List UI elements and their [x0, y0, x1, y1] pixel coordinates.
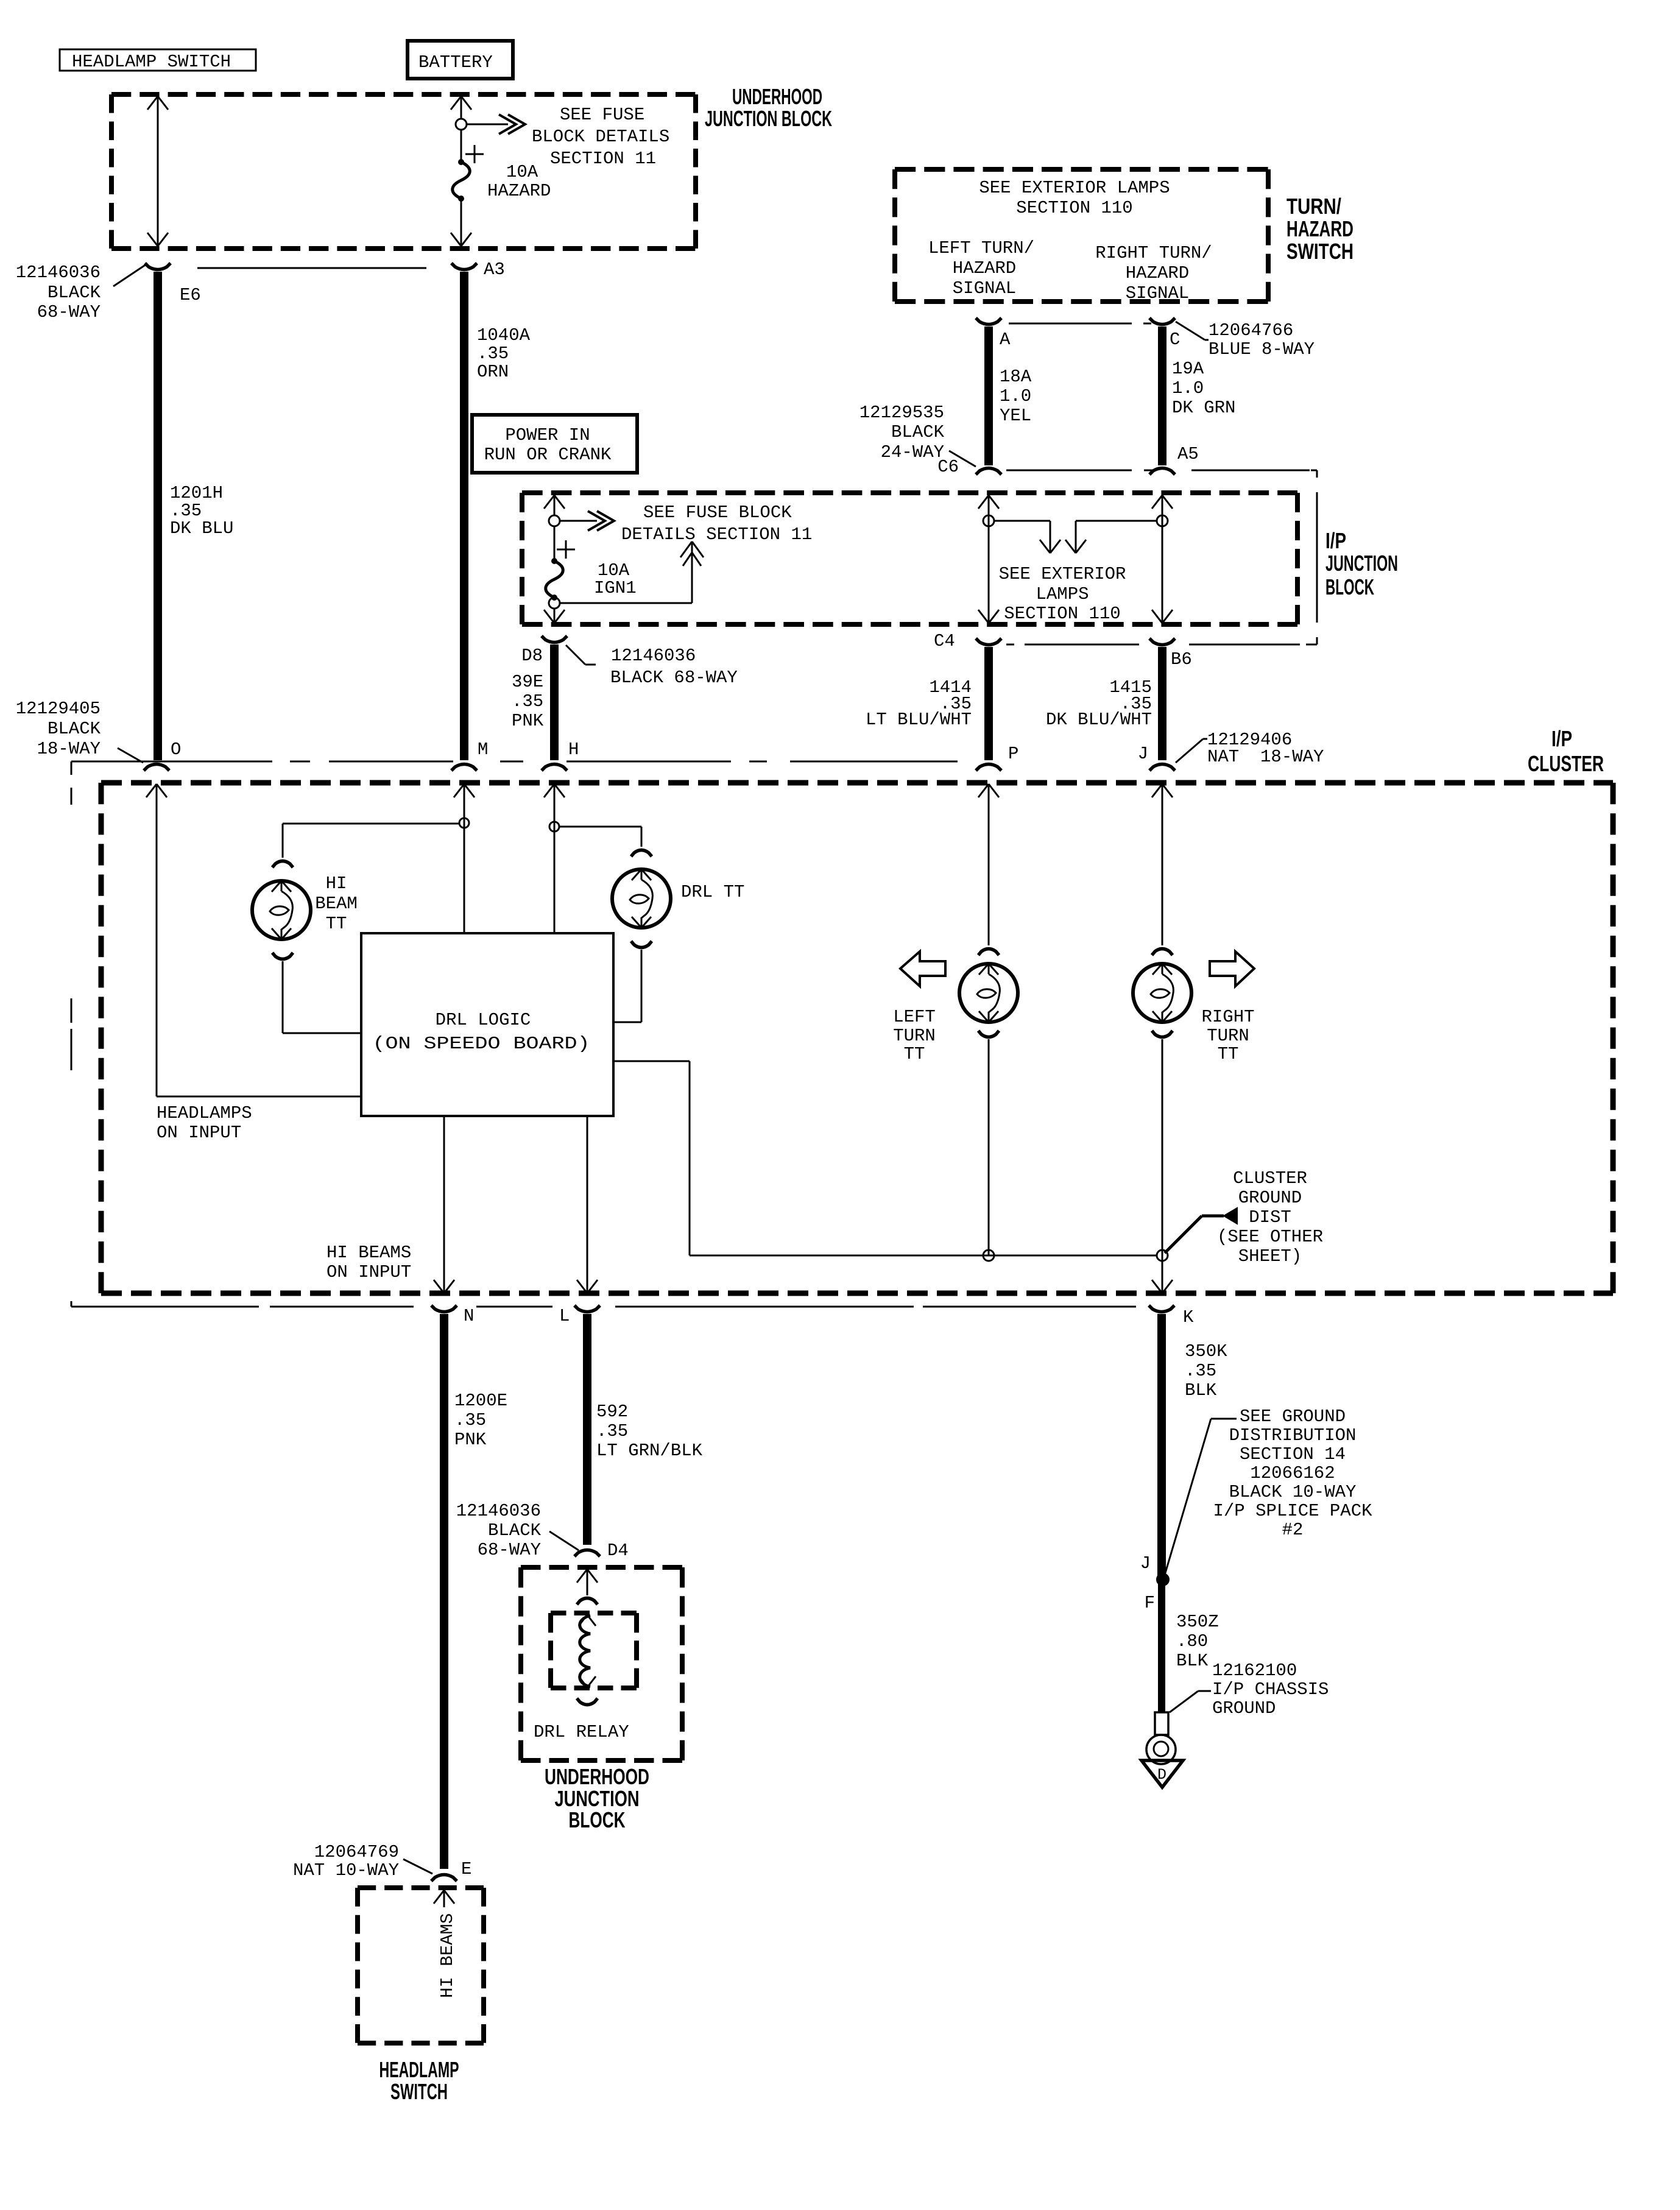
svg-text:M: M: [478, 740, 488, 760]
svg-text:ON INPUT: ON INPUT: [157, 1123, 241, 1143]
svg-text:BLACK: BLACK: [48, 283, 101, 303]
svg-text:TT: TT: [326, 914, 347, 934]
svg-text:D: D: [1157, 1766, 1166, 1784]
svg-text:12129405: 12129405: [16, 699, 101, 719]
svg-text:HAZARD: HAZARD: [1286, 216, 1354, 241]
svg-text:12146036: 12146036: [611, 646, 696, 666]
svg-text:.35: .35: [512, 691, 543, 711]
svg-text:NAT 18-WAY: NAT 18-WAY: [1207, 747, 1324, 767]
svg-text:SWITCH: SWITCH: [1286, 239, 1354, 264]
svg-text:PNK: PNK: [454, 1430, 487, 1450]
svg-text:BLOCK: BLOCK: [569, 1807, 626, 1832]
svg-text:(SEE OTHER: (SEE OTHER: [1217, 1227, 1323, 1247]
svg-text:D4: D4: [607, 1541, 629, 1561]
svg-text:12066162: 12066162: [1250, 1463, 1335, 1483]
svg-text:BLACK: BLACK: [891, 422, 945, 442]
svg-text:ON INPUT: ON INPUT: [326, 1262, 411, 1282]
svg-text:I/P SPLICE PACK: I/P SPLICE PACK: [1213, 1501, 1372, 1521]
svg-text:350Z: 350Z: [1176, 1612, 1219, 1632]
svg-text:N: N: [464, 1306, 474, 1326]
svg-text:LEFT: LEFT: [893, 1007, 936, 1027]
svg-text:18-WAY: 18-WAY: [37, 739, 101, 759]
svg-text:UNDERHOOD: UNDERHOOD: [545, 1764, 649, 1789]
svg-text:RIGHT: RIGHT: [1201, 1007, 1254, 1027]
svg-text:DISTRIBUTION: DISTRIBUTION: [1229, 1425, 1357, 1446]
svg-text:12146036: 12146036: [16, 263, 101, 283]
svg-text:ORN: ORN: [477, 362, 509, 382]
svg-text:HEADLAMP SWITCH: HEADLAMP SWITCH: [72, 52, 231, 72]
svg-text:19A: 19A: [1172, 359, 1204, 379]
svg-text:BLOCK DETAILS: BLOCK DETAILS: [532, 127, 669, 147]
svg-text:C: C: [1170, 330, 1180, 350]
svg-text:TURN/: TURN/: [1286, 194, 1341, 219]
svg-text:DK GRN: DK GRN: [1172, 398, 1235, 418]
svg-text:POWER IN: POWER IN: [505, 425, 590, 445]
svg-text:350K: 350K: [1185, 1341, 1227, 1361]
svg-text:#2: #2: [1282, 1520, 1304, 1540]
svg-text:YEL: YEL: [1000, 406, 1031, 426]
svg-text:TT: TT: [1218, 1044, 1239, 1064]
svg-text:E6: E6: [180, 285, 201, 305]
svg-text:E: E: [461, 1859, 471, 1879]
svg-text:SHEET): SHEET): [1238, 1246, 1302, 1266]
svg-text:.35: .35: [596, 1421, 628, 1441]
svg-text:BLOCK: BLOCK: [1325, 574, 1374, 599]
svg-text:F: F: [1145, 1593, 1155, 1613]
svg-text:HEADLAMPS: HEADLAMPS: [157, 1103, 252, 1123]
svg-text:24-WAY: 24-WAY: [881, 442, 944, 462]
svg-text:1.0: 1.0: [1172, 378, 1204, 398]
svg-text:12064769: 12064769: [314, 1842, 399, 1862]
svg-text:SECTION 14: SECTION 14: [1240, 1444, 1346, 1464]
svg-text:RUN OR CRANK: RUN OR CRANK: [484, 445, 612, 465]
svg-text:HAZARD: HAZARD: [487, 181, 551, 201]
svg-text:TURN: TURN: [893, 1026, 936, 1046]
svg-text:L: L: [559, 1306, 570, 1326]
svg-text:SEE FUSE BLOCK: SEE FUSE BLOCK: [643, 503, 792, 523]
svg-text:DRL TT: DRL TT: [681, 882, 744, 902]
svg-text:12162100: 12162100: [1212, 1661, 1297, 1681]
svg-text:I/P: I/P: [1325, 528, 1346, 553]
svg-text:SEE EXTERIOR: SEE EXTERIOR: [999, 564, 1126, 584]
svg-text:A5: A5: [1177, 444, 1199, 464]
svg-text:BLACK: BLACK: [488, 1520, 542, 1541]
svg-text:A: A: [1000, 330, 1011, 350]
svg-text:H: H: [568, 740, 579, 760]
svg-text:LEFT TURN/: LEFT TURN/: [928, 238, 1034, 258]
svg-text:HI BEAMS: HI BEAMS: [326, 1243, 411, 1263]
svg-text:DRL LOGIC: DRL LOGIC: [436, 1010, 531, 1030]
svg-text:CLUSTER: CLUSTER: [1528, 751, 1604, 776]
svg-text:SEE GROUND: SEE GROUND: [1240, 1407, 1346, 1427]
svg-text:DETAILS SECTION 11: DETAILS SECTION 11: [621, 524, 812, 545]
svg-text:I/P: I/P: [1551, 726, 1572, 751]
svg-text:GROUND: GROUND: [1238, 1188, 1302, 1208]
svg-text:SWITCH: SWITCH: [390, 2079, 448, 2104]
svg-text:592: 592: [596, 1402, 628, 1422]
svg-text:O: O: [171, 740, 181, 760]
svg-text:NAT 10-WAY: NAT 10-WAY: [293, 1860, 399, 1880]
svg-text:B6: B6: [1171, 649, 1192, 669]
svg-text:TT: TT: [904, 1044, 925, 1064]
svg-text:PNK: PNK: [512, 711, 544, 731]
svg-text:GROUND: GROUND: [1212, 1698, 1276, 1718]
svg-text:LAMPS: LAMPS: [1036, 584, 1089, 604]
svg-text:BLUE 8-WAY: BLUE 8-WAY: [1209, 339, 1315, 359]
svg-text:C6: C6: [937, 457, 959, 477]
svg-text:.35: .35: [477, 344, 509, 364]
svg-text:SIGNAL: SIGNAL: [1126, 283, 1189, 303]
svg-text:RIGHT TURN/: RIGHT TURN/: [1095, 243, 1212, 263]
svg-text:BLACK 68-WAY: BLACK 68-WAY: [610, 668, 738, 688]
svg-text:12146036: 12146036: [456, 1501, 541, 1521]
svg-text:J: J: [1140, 1553, 1151, 1573]
svg-text:SIGNAL: SIGNAL: [953, 278, 1016, 298]
svg-text:1.0: 1.0: [1000, 386, 1031, 406]
svg-text:18A: 18A: [1000, 367, 1032, 387]
svg-text:12129535: 12129535: [859, 403, 944, 423]
svg-text:(ON SPEEDO BOARD): (ON SPEEDO BOARD): [373, 1034, 590, 1054]
svg-text:SEE FUSE: SEE FUSE: [560, 105, 644, 125]
svg-text:68-WAY: 68-WAY: [37, 302, 101, 322]
svg-text:DK BLU/WHT: DK BLU/WHT: [1046, 710, 1152, 730]
svg-text:SECTION 11: SECTION 11: [550, 149, 656, 169]
svg-text:J: J: [1138, 744, 1148, 764]
svg-text:SEE EXTERIOR LAMPS: SEE EXTERIOR LAMPS: [979, 178, 1170, 198]
svg-text:39E: 39E: [512, 672, 543, 692]
svg-text:JUNCTION: JUNCTION: [1325, 551, 1398, 576]
svg-text:DK BLU: DK BLU: [170, 518, 233, 538]
svg-text:10A: 10A: [506, 162, 538, 182]
svg-text:HAZARD: HAZARD: [953, 258, 1016, 278]
svg-text:68-WAY: 68-WAY: [478, 1540, 541, 1560]
svg-text:.35: .35: [454, 1410, 486, 1430]
svg-text:12064766: 12064766: [1209, 320, 1293, 341]
svg-text:.35: .35: [1185, 1361, 1216, 1381]
svg-text:DIST: DIST: [1249, 1207, 1291, 1227]
svg-text:1040A: 1040A: [477, 325, 531, 345]
svg-text:P: P: [1008, 744, 1018, 764]
svg-text:D8: D8: [521, 646, 543, 666]
svg-text:A3: A3: [484, 259, 505, 280]
svg-text:TURN: TURN: [1207, 1026, 1249, 1046]
svg-text:.80: .80: [1176, 1631, 1208, 1651]
svg-text:SECTION 110: SECTION 110: [1016, 198, 1132, 218]
svg-text:BLACK 10-WAY: BLACK 10-WAY: [1229, 1482, 1357, 1502]
svg-text:BLK: BLK: [1185, 1380, 1217, 1400]
svg-text:UNDERHOOD: UNDERHOOD: [732, 84, 822, 109]
svg-text:HAZARD: HAZARD: [1126, 263, 1189, 283]
svg-text:I/P CHASSIS: I/P CHASSIS: [1212, 1679, 1329, 1700]
svg-text:1200E: 1200E: [454, 1391, 507, 1411]
svg-text:DRL RELAY: DRL RELAY: [534, 1722, 629, 1742]
svg-text:CLUSTER: CLUSTER: [1233, 1168, 1307, 1188]
svg-text:HI: HI: [326, 874, 347, 894]
svg-text:C4: C4: [934, 631, 955, 651]
svg-text:JUNCTION BLOCK: JUNCTION BLOCK: [705, 106, 832, 131]
svg-text:BATTERY: BATTERY: [418, 52, 493, 72]
svg-text:SECTION 110: SECTION 110: [1004, 604, 1120, 624]
svg-text:BEAM: BEAM: [315, 894, 358, 914]
svg-text:IGN1: IGN1: [594, 578, 637, 598]
svg-text:HEADLAMP: HEADLAMP: [379, 2057, 459, 2082]
svg-text:BLK: BLK: [1176, 1651, 1209, 1671]
svg-text:K: K: [1183, 1307, 1194, 1327]
svg-text:HI BEAMS: HI BEAMS: [437, 1913, 457, 1998]
svg-text:BLACK: BLACK: [48, 719, 101, 739]
svg-text:LT GRN/BLK: LT GRN/BLK: [596, 1441, 703, 1461]
svg-text:LT BLU/WHT: LT BLU/WHT: [866, 710, 972, 730]
